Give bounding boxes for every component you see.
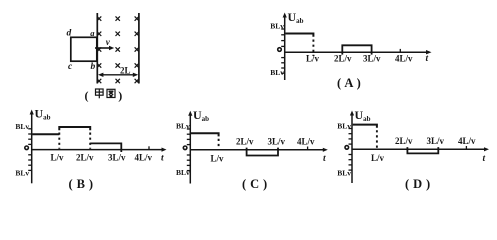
C dotted drop at L/v <box>218 139 220 149</box>
svg-text:L/v: L/v <box>371 153 385 163</box>
C x-axis <box>190 149 324 151</box>
svg-text:t: t <box>323 154 326 164</box>
B dotted drop at L/v <box>58 133 60 149</box>
C step1 0 to L/v <box>191 133 219 136</box>
A y ticks <box>281 29 285 73</box>
svg-text:BLv: BLv <box>15 169 29 178</box>
svg-text:( B ): ( B ) <box>69 177 94 191</box>
velocity arrow v <box>95 46 114 51</box>
svg-text:2L/v: 2L/v <box>76 153 94 163</box>
svg-text:3L/v: 3L/v <box>268 136 286 146</box>
D x tick 4L/v <box>465 146 467 149</box>
svg-text:2L/v: 2L/v <box>236 136 254 146</box>
svg-text:BLv: BLv <box>15 122 29 131</box>
svg-text:4L/v: 4L/v <box>135 153 153 163</box>
svg-text:): ) <box>118 89 122 103</box>
D y ticks <box>349 129 353 171</box>
svg-text:4L/v: 4L/v <box>395 54 413 64</box>
svg-text:BLv: BLv <box>337 121 351 130</box>
C negative pulse 2L/v to 3L/v <box>247 148 278 156</box>
svg-text:t: t <box>161 154 164 164</box>
svg-text:L/v: L/v <box>211 154 225 164</box>
A dotted drop at L/v <box>312 40 314 57</box>
C y-axis <box>189 114 191 184</box>
svg-text:BLv: BLv <box>337 168 351 177</box>
loop abcd <box>71 37 97 61</box>
D negative pulse 2L/v to 3L/v <box>407 147 438 153</box>
svg-text:L/v: L/v <box>306 54 320 64</box>
B y ticks <box>28 129 32 171</box>
svg-text:a: a <box>90 28 95 38</box>
hanzi jia <box>96 89 104 98</box>
B x-axis <box>32 149 164 151</box>
hanzi tu <box>107 89 115 97</box>
B x tick 4L/v <box>148 146 150 149</box>
D x-axis <box>352 148 486 150</box>
B y-axis <box>31 113 33 184</box>
A y-axis <box>284 16 286 81</box>
dimension arrow 2L <box>98 73 138 77</box>
B dotted drop at 2L/v <box>89 133 91 149</box>
svg-text:BLv: BLv <box>176 168 190 177</box>
field boundary right line <box>138 13 140 84</box>
svg-text:2L/v: 2L/v <box>395 136 413 146</box>
C x tick 4L/v <box>307 147 309 150</box>
C label zero <box>183 146 187 150</box>
svg-text:(: ( <box>85 89 89 103</box>
field boundary left line <box>96 13 98 84</box>
B step3 2L/v to 3L/v <box>90 143 121 152</box>
A label zero <box>278 48 282 52</box>
svg-text:2L/v: 2L/v <box>334 54 352 64</box>
svg-text:BLv: BLv <box>270 68 284 77</box>
svg-text:2L: 2L <box>120 66 131 76</box>
svg-text:4L/v: 4L/v <box>297 136 315 146</box>
A pulse 2L/v to 3L/v <box>342 45 371 54</box>
D step1 0 to L/v <box>353 125 377 128</box>
flux crosses grid <box>97 16 139 83</box>
B label zero <box>25 146 29 150</box>
svg-text:t: t <box>483 154 486 164</box>
A x tick 4L/v <box>399 49 401 52</box>
svg-text:( D ): ( D ) <box>405 177 431 191</box>
B step1 0 to L/v <box>32 133 59 135</box>
D dotted drop at L/v <box>376 130 378 148</box>
svg-text:( A ): ( A ) <box>337 76 361 90</box>
svg-text:b: b <box>91 62 96 72</box>
svg-text:3L/v: 3L/v <box>363 54 381 64</box>
D y-axis <box>351 114 353 184</box>
svg-text:d: d <box>67 29 72 39</box>
svg-text:BLv: BLv <box>270 21 284 30</box>
C y ticks <box>187 129 191 171</box>
svg-text:L/v: L/v <box>51 153 65 163</box>
A x-axis <box>285 51 428 53</box>
svg-text:4L/v: 4L/v <box>458 136 476 146</box>
B step2 L/v to 2L/v <box>59 127 90 130</box>
svg-text:t: t <box>426 54 429 64</box>
svg-text:3L/v: 3L/v <box>108 153 126 163</box>
svg-text:( C ): ( C ) <box>242 177 268 191</box>
svg-text:BLv: BLv <box>176 121 190 130</box>
svg-text:3L/v: 3L/v <box>427 136 445 146</box>
A step1 BLv 0 to L/v <box>285 34 313 37</box>
D label zero <box>345 146 349 150</box>
